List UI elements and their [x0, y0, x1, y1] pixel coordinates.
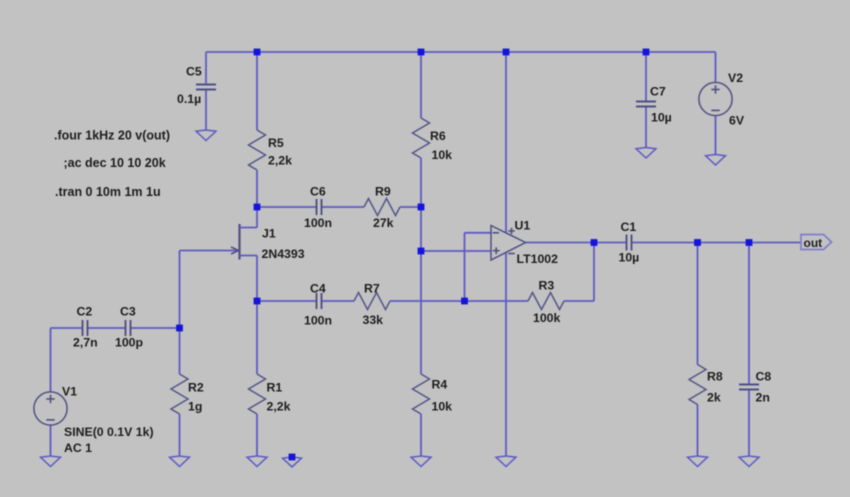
svg-text:10µ: 10µ	[651, 111, 672, 125]
svg-text:SINE(0 0.1V 1k): SINE(0 0.1V 1k)	[64, 425, 154, 439]
svg-text:R7: R7	[364, 281, 380, 295]
svg-text:.four 1kHz 20 v(out): .four 1kHz 20 v(out)	[54, 129, 170, 143]
svg-text:R1: R1	[267, 381, 283, 395]
svg-text:10µ: 10µ	[619, 251, 640, 265]
svg-text:2,2k: 2,2k	[268, 154, 292, 168]
svg-text:C8: C8	[756, 369, 772, 383]
svg-text:LT1002: LT1002	[517, 252, 559, 266]
svg-text:R5: R5	[268, 136, 284, 150]
svg-text:C5: C5	[186, 65, 202, 79]
svg-text:V2: V2	[728, 71, 743, 85]
svg-text:C6: C6	[310, 184, 326, 198]
svg-text:C2: C2	[77, 304, 93, 318]
svg-text:R2: R2	[188, 381, 204, 395]
svg-text:U1: U1	[515, 218, 531, 232]
svg-text:100n: 100n	[304, 314, 332, 328]
svg-text:33k: 33k	[363, 313, 384, 327]
svg-text:R9: R9	[375, 185, 391, 199]
svg-text:C4: C4	[310, 281, 326, 295]
svg-text:0.1µ: 0.1µ	[177, 92, 201, 106]
svg-text:10k: 10k	[432, 148, 453, 162]
svg-text:100p: 100p	[115, 336, 143, 350]
svg-text:2,2k: 2,2k	[267, 400, 291, 414]
svg-text:R6: R6	[430, 129, 446, 143]
svg-text:out: out	[804, 236, 823, 250]
svg-text:J1: J1	[262, 227, 276, 241]
svg-text:C1: C1	[621, 220, 637, 234]
svg-text:R8: R8	[707, 369, 723, 383]
svg-text:1g: 1g	[188, 400, 202, 414]
svg-text:V1: V1	[62, 385, 77, 399]
svg-text:2N4393: 2N4393	[262, 247, 305, 261]
svg-text:27k: 27k	[373, 216, 394, 230]
svg-text:100n: 100n	[304, 216, 332, 230]
svg-text:2,7n: 2,7n	[73, 336, 98, 350]
svg-text:C7: C7	[650, 85, 666, 99]
svg-text:10k: 10k	[432, 399, 453, 413]
svg-text:100k: 100k	[533, 311, 561, 325]
svg-text:C3: C3	[120, 304, 136, 318]
svg-text:.tran 0 10m 1m 1u: .tran 0 10m 1m 1u	[55, 185, 161, 199]
svg-text:R4: R4	[432, 378, 448, 392]
svg-text:6V: 6V	[729, 113, 745, 127]
svg-text:;ac dec 10 10 20k: ;ac dec 10 10 20k	[64, 156, 166, 170]
svg-text:2k: 2k	[707, 391, 721, 405]
svg-text:R3: R3	[539, 279, 555, 293]
svg-text:2n: 2n	[756, 391, 770, 405]
svg-text:AC 1: AC 1	[64, 441, 92, 455]
